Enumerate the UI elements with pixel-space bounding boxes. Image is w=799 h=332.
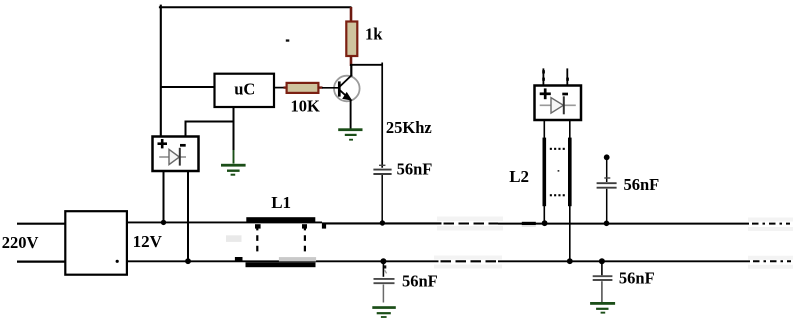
svg-text:56nF: 56nF <box>397 160 433 179</box>
wire 25kHz vertical drop <box>381 63 383 168</box>
wire uC left to vertical <box>161 86 215 88</box>
wire mains top <box>17 223 65 225</box>
junction C1 at top bus <box>380 220 385 225</box>
junction L2 right at bottom bus <box>567 258 573 264</box>
ground below Q1 <box>338 128 362 140</box>
junction at bottom bus x188 <box>185 258 191 264</box>
svg-text:25Khz: 25Khz <box>386 118 432 137</box>
junction C2 at bottom bus <box>380 258 386 264</box>
junction at top bus x163 <box>161 220 166 225</box>
wire bottom bus dashed gap <box>441 260 499 262</box>
capacitor C1 56nF (25kHz node to top bus) <box>373 165 391 223</box>
resistor R2 10K <box>284 83 323 93</box>
transformer T1 box <box>65 211 127 275</box>
svg-text:220V: 220V <box>2 233 39 252</box>
L2 core dotted coupling rows <box>550 148 565 197</box>
svg-text:L1: L1 <box>271 193 291 212</box>
L1 core dashed coupling lines <box>257 225 305 253</box>
wire left vertical from top rail to bridge B1 <box>160 5 162 137</box>
ground below C4 <box>590 302 615 314</box>
wire top bus dash-dot right edge <box>752 223 790 225</box>
capacitor C3 56nF (node dot to top bus) <box>597 154 617 223</box>
rectifier bridge B1 <box>153 137 199 172</box>
wire top bus dashed gap <box>444 222 499 224</box>
wire B1 right output down to bottom bus <box>187 171 189 261</box>
svg-text:56nF: 56nF <box>402 272 438 291</box>
svg-text:1k: 1k <box>365 25 383 44</box>
wire top rail <box>159 6 352 8</box>
resistor R1 1k <box>346 7 357 66</box>
junction C3 at top bus <box>604 221 610 227</box>
inductor L1 top winding bar <box>246 217 326 228</box>
rectifier bridge B2 <box>535 86 582 121</box>
ground below C2 <box>372 306 396 318</box>
wire B2 input stub right <box>566 68 569 85</box>
inductor L2 right winding bar <box>568 120 572 261</box>
wire bottom bus dash-dot right edge <box>753 260 791 262</box>
wire bottom bus solid left <box>127 260 439 262</box>
inductor L2 left winding bar <box>543 120 547 224</box>
wire base wire R2 to Q1 <box>322 87 339 89</box>
junction C4 at bottom bus <box>599 258 605 264</box>
wire emitter to ground <box>350 100 352 129</box>
wire B1 minus terminal up and over to uC ground <box>186 122 234 137</box>
capacitor C4 56nF (bottom bus to ground) <box>593 261 613 302</box>
artifact speckle around dashed gaps <box>434 217 793 269</box>
junction L2 left at top bus <box>542 220 548 226</box>
wire B2 input stub left <box>542 68 545 85</box>
svg-text:uC: uC <box>234 79 255 98</box>
wire collector node to 25kHz branch <box>350 64 383 66</box>
svg-text:10K: 10K <box>291 97 321 116</box>
svg-text:L2: L2 <box>509 167 529 186</box>
wire top bus solid right <box>498 223 749 225</box>
svg-text:12V: 12V <box>133 232 163 251</box>
wire ground stub (green) <box>233 150 235 164</box>
wire uC right to R2 <box>274 87 287 89</box>
wire mains bottom <box>17 261 65 263</box>
transistor Q1 <box>334 64 360 101</box>
inductor L1 bottom winding bar <box>226 235 316 267</box>
wire uC bottom to ground <box>233 107 235 150</box>
svg-text:56nF: 56nF <box>624 175 660 194</box>
wire top bus solid left <box>127 221 322 223</box>
capacitor C2 56nF (bottom bus to ground) <box>374 261 395 302</box>
microcontroller U1 <box>215 74 275 107</box>
wire bottom bus solid right <box>498 260 750 262</box>
wire B1 plus output down to top bus <box>163 171 165 223</box>
svg-text:56nF: 56nF <box>619 268 655 287</box>
ground below uC <box>221 164 246 176</box>
node stray dot artifact <box>286 39 290 41</box>
